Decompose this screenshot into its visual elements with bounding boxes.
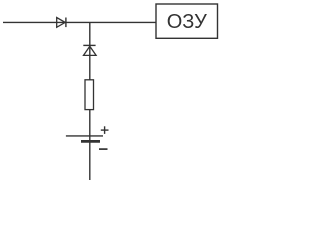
svg-text:ОЗУ: ОЗУ <box>167 11 207 33</box>
